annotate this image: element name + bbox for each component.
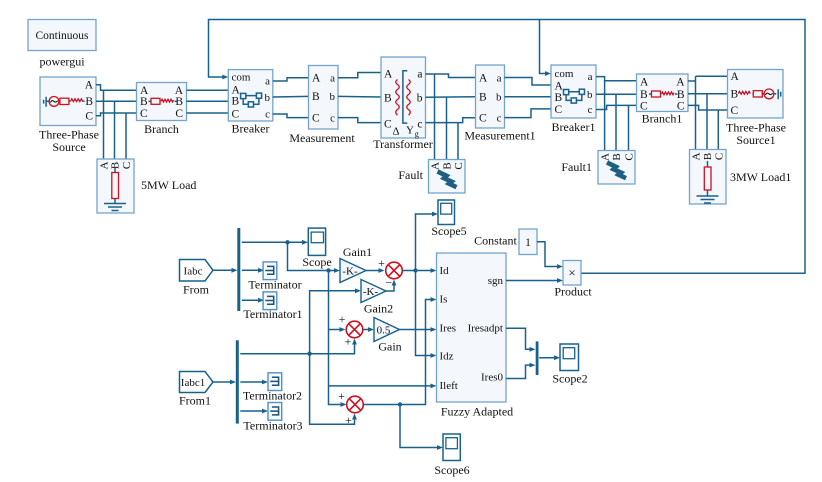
wire junction up to Scope5 [416,214,436,271]
svg-text:B: B [640,89,648,101]
wire Gain1 to sum1 [366,270,382,272]
wire Measurement1 a to Breaker1 A [505,78,552,86]
wire tap B to 5MW Load [114,101,116,159]
svg-text:C: C [555,104,563,116]
svg-text:+: + [345,335,352,349]
5MW Load ground [104,204,126,211]
svg-text:Breaker1: Breaker1 [552,120,596,134]
svg-text:A: A [430,162,442,170]
Scope6 block [434,434,469,477]
svg-text:C: C [624,153,636,160]
svg-text:A: A [600,153,612,161]
svg-text:Terminator3: Terminator3 [243,419,302,433]
svg-text:Continuous: Continuous [35,30,89,42]
wire Fuzzy sgn to Product [506,280,561,282]
node junction Scope branch [285,240,289,244]
svg-text:B: B [702,153,714,160]
wire Branch C to Breaker C [187,112,229,114]
Breaker icon [241,93,262,107]
svg-text:Y: Y [406,125,414,137]
feedback branch to Breaker1 com [540,20,549,74]
wire Breaker1 a to Branch1 A [596,77,637,81]
wire Breaker a to Measurement A [273,78,309,81]
wire junction down to sum3 bottom [310,354,355,425]
svg-text:Fuzzy Adapted: Fuzzy Adapted [441,405,513,419]
svg-text:c: c [265,109,270,121]
svg-text:A: A [731,71,740,83]
Three-Phase Source1 block [726,70,786,148]
Scope5 block [431,200,466,238]
wire Iabc to demux [213,269,235,271]
wire demux to Terminator1 [242,299,262,301]
svg-text:B: B [442,162,454,169]
wire Measurement c to Transformer C [338,118,381,123]
svg-text:Product: Product [554,285,592,299]
wire Branch B to Breaker B [187,100,229,102]
svg-text:b: b [265,92,271,104]
Terminator1 block [243,292,302,321]
wire tap C to 5MW Load [125,113,127,159]
svg-text:C: C [453,162,465,169]
arrow into Breaker1 com [545,71,551,76]
From tag Iabc [180,260,214,297]
wire demux to Scope [242,241,306,243]
sum1 [378,256,402,290]
svg-text:C: C [384,119,392,131]
svg-text:C: C [175,108,183,120]
svg-text:b: b [587,89,593,101]
wire Fuzzy Iresadpt to mux [506,328,533,349]
powergui block [28,20,96,69]
arrow into Breaker com [222,75,228,80]
Terminator block [248,262,301,292]
wire tap a to Fault1 A [604,81,606,151]
svg-text:c: c [588,104,593,116]
wire Breaker b to Measurement B [273,95,309,98]
svg-text:5MW Load: 5MW Load [141,178,196,192]
svg-text:Ileft: Ileft [440,380,458,392]
svg-text:From1: From1 [179,394,211,408]
Breaker1 block [551,65,596,134]
svg-text:Breaker: Breaker [232,122,270,136]
Breaker1 icon [564,89,585,103]
Three-Phase Source1 icon [738,89,780,99]
svg-text:Gain2: Gain2 [364,302,393,316]
svg-text:+: + [339,312,346,326]
wire Measurement1 b to Breaker1 B [505,96,552,98]
wire Measurement1 c to Breaker1 C [505,109,552,118]
svg-text:Gain1: Gain1 [343,245,372,259]
svg-text:B: B [677,89,685,101]
wire Iabc1 to demux2 [213,381,234,383]
svg-text:Gain: Gain [378,340,401,354]
wire Fuzzy Ires0 to mux [506,365,533,378]
Branch1 block [637,74,689,126]
svg-text:Ires0: Ires0 [481,372,503,384]
Scope2 block [552,344,587,386]
wire tap c to Fault1 C [628,105,630,150]
svg-text:+: + [338,389,345,403]
5MW Load block [97,159,134,213]
wire Breaker c to Measurement C [273,114,309,118]
svg-text:C: C [121,162,133,169]
wire Gain to Fuzzy Ires [400,329,435,331]
svg-text:3MW Load1: 3MW Load1 [730,170,791,184]
Transformer core and windings icon [396,71,411,123]
wire branch down to Gain1 [288,242,338,270]
svg-text:B: B [140,96,148,108]
3MW Load1 block [690,150,727,205]
wire Gain2 out to sum1 bottom [386,282,394,292]
wire demux to Terminator [242,269,262,271]
Fault1 block [598,151,636,185]
svg-text:Constant: Constant [474,234,517,248]
demux Iabc1 [236,340,239,423]
wire tap b to Fault1 B [615,94,617,150]
svg-text:C: C [312,113,320,125]
Measurement1 block [464,65,535,143]
svg-text:b: b [417,93,423,105]
svg-text:Terminator1: Terminator1 [243,307,302,321]
svg-text:a: a [265,76,270,88]
svg-text:Scope6: Scope6 [434,463,469,477]
wire branch to sum2 left [329,329,344,331]
Constant block [474,229,537,255]
svg-text:B: B [312,91,320,103]
svg-text:a: a [330,73,335,85]
Three-Phase Source icon [44,97,85,107]
svg-text:a: a [588,71,593,83]
wire branch down to sum2 sum3 Ileft [329,271,344,405]
node junction 4way [307,352,311,356]
Fault lightning icon [438,172,457,188]
wire demux2 to Terminator2 [240,381,265,383]
svg-text:B: B [555,92,563,104]
Branch1 RL icon [649,91,678,97]
wire Transformer c to Measurement1 C [426,118,476,123]
svg-text:C: C [140,108,148,120]
wire Measurement a to Transformer A [338,73,381,78]
Three-Phase Source block [39,77,99,154]
svg-text:Branch: Branch [144,122,179,136]
svg-text:B: B [85,96,93,108]
svg-text:C: C [85,111,93,123]
wire Branch A to Breaker A [187,89,229,91]
demux Iabc [237,228,240,311]
mux bar [536,341,539,375]
wire mux to Scope2 [539,357,557,359]
svg-text:−: − [385,276,392,290]
wire sum1 to Fuzzy Id [403,270,435,272]
wire Breaker1 b to Branch1 B [596,93,637,95]
svg-text:-K-: -K- [342,266,358,278]
svg-text:B: B [232,96,240,108]
svg-text:a: a [497,72,502,84]
svg-text:b: b [330,91,336,103]
svg-text:Branch1: Branch1 [642,112,683,126]
From tag Iabc1 [179,372,213,408]
wire tap B to 3MW Load1 [706,94,708,150]
Gain1 triangle [340,245,372,283]
svg-text:Source1: Source1 [736,133,775,147]
svg-text:C: C [232,109,240,121]
Branch block [137,83,187,137]
svg-text:Scope: Scope [302,255,331,269]
wire tap b to Fault B [446,97,448,159]
svg-text:Ires: Ires [440,323,457,335]
Branch RL icon [149,98,178,104]
Fault1 lightning icon [607,163,626,179]
wire sum2 to Gain [364,329,372,331]
wire Gain2 input from below junction [310,291,359,354]
svg-text:C: C [479,112,487,124]
svg-text:A: A [479,72,488,84]
wire tap A to 5MW Load [103,90,105,159]
Gain triangle 0.5 [374,318,402,354]
svg-text:1: 1 [525,237,531,249]
Gain2 triangle [361,280,393,316]
wire Branch1 C to Source1 C [688,105,728,110]
svg-text:A: A [384,69,393,81]
wire junction down to Idz [416,271,435,356]
svg-text:A: A [691,152,703,160]
Scope block [302,228,331,269]
5MW Load resistor [112,168,119,203]
svg-text:A: A [676,76,685,88]
svg-text:0.5: 0.5 [377,325,391,337]
svg-text:C: C [713,153,725,160]
svg-text:c: c [497,112,502,124]
svg-text:A: A [640,76,649,88]
svg-text:Fault: Fault [398,168,423,182]
Fuzzy Adapted subsystem block [437,253,514,419]
Terminator3 block [243,403,302,433]
svg-text:Terminator2: Terminator2 [243,389,302,403]
sum2 [339,312,363,349]
svg-text:+: + [378,256,385,270]
feedback wire Product to breakers (top line) [209,20,806,274]
wire tap C to 3MW Load1 [717,110,719,150]
wire sum3 output to Is [364,300,434,405]
Fault block [429,160,466,194]
3MW Load1 ground [697,196,719,203]
wire branch down to Scope6 [400,405,441,448]
svg-text:Iabc: Iabc [184,266,203,278]
svg-text:A: A [85,80,94,92]
wire branch to Ileft [329,385,435,387]
Transformer block [373,57,433,151]
wire Breaker1 c to Branch1 C [596,105,637,109]
Terminator2 block [243,373,302,403]
wire source C to Branch C [96,113,137,116]
svg-text:com: com [555,68,574,80]
wire source B to Branch B [96,100,137,102]
svg-text:a: a [417,69,422,81]
wire tap a to Fault A [434,74,436,160]
svg-text:C: C [731,105,739,117]
svg-text:+: + [345,413,352,427]
svg-text:Iabc1: Iabc1 [181,377,205,389]
svg-text:Iresadpt: Iresadpt [468,323,503,335]
wire Constant to Product [537,242,561,267]
Breaker block [228,70,272,136]
wire Measurement b to Transformer B [338,95,381,98]
svg-text:A: A [555,81,564,93]
svg-text:Idz: Idz [440,351,454,363]
3MW Load1 resistor [704,161,711,196]
wire Transformer a to Measurement1 A [426,74,476,78]
svg-text:Terminator: Terminator [248,278,301,292]
wire tap c to Fault C [457,123,459,160]
wire demux2 main tap [240,341,354,354]
svg-text:powergui: powergui [39,55,85,69]
wire Branch1 B to Source1 B [688,93,728,95]
svg-text:A: A [312,73,321,85]
svg-text:Is: Is [440,294,448,306]
node junction Scope6 branch [398,402,402,406]
svg-text:com: com [232,72,251,84]
svg-text:From: From [183,283,210,297]
svg-text:×: × [568,265,575,280]
svg-text:B: B [611,153,623,160]
svg-text:Measurement: Measurement [289,131,355,145]
wire Transformer b to Measurement1 B [426,96,476,99]
wire tap A to 3MW Load1 [695,76,697,149]
svg-text:Fault1: Fault1 [561,160,592,174]
svg-text:B: B [384,93,392,105]
wire demux2 to Terminator3 [240,410,265,412]
wire source A to Branch A [96,85,137,91]
svg-text:Id: Id [440,265,450,277]
wire Branch1 A to Source1 A [688,76,728,81]
svg-text:c: c [330,113,335,125]
svg-text:B: B [479,92,487,104]
svg-text:B: B [731,89,739,101]
svg-text:Scope5: Scope5 [431,224,466,238]
svg-text:Source: Source [52,140,85,154]
svg-text:Scope2: Scope2 [552,372,587,386]
svg-text:Δ: Δ [392,126,399,138]
svg-text:b: b [496,92,502,104]
svg-text:Transformer: Transformer [373,137,433,151]
Measurement block [289,66,355,146]
node junction on Gain1 input wire [326,268,330,272]
svg-text:sgn: sgn [488,275,504,287]
Product block [554,261,592,299]
svg-text:Measurement1: Measurement1 [464,129,535,143]
node junction Id wire [413,268,417,272]
svg-text:-K-: -K- [363,286,379,298]
sum3 [338,389,363,427]
